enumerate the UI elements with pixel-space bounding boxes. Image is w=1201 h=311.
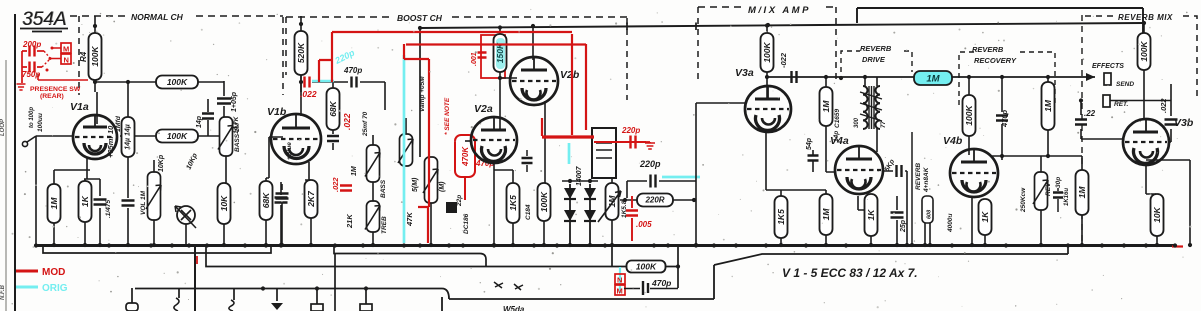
svg-text:100K: 100K bbox=[539, 191, 549, 212]
svg-text:10K: 10K bbox=[1152, 206, 1162, 222]
svg-text:+05mf 10: +05mf 10 bbox=[106, 125, 115, 158]
svg-text:100K: 100K bbox=[762, 41, 772, 62]
svg-text:.001: .001 bbox=[471, 52, 478, 66]
svg-text:470p: 470p bbox=[1000, 109, 1009, 128]
svg-text:REVERB: REVERB bbox=[860, 44, 892, 53]
svg-text:14007: 14007 bbox=[576, 165, 583, 186]
svg-text:300: 300 bbox=[854, 117, 860, 128]
svg-text:V2b: V2b bbox=[560, 69, 580, 81]
svg-text:M/IX AMP: M/IX AMP bbox=[748, 5, 811, 16]
svg-text:(M): (M) bbox=[439, 181, 446, 192]
svg-text:BASS 1M: BASS 1M bbox=[234, 123, 241, 152]
svg-text:470p: 470p bbox=[343, 66, 362, 75]
svg-text:V2a: V2a bbox=[474, 103, 493, 115]
svg-text:100K: 100K bbox=[167, 77, 188, 87]
svg-text:220p: 220p bbox=[621, 126, 640, 135]
svg-text:470K: 470K bbox=[461, 146, 470, 167]
svg-text:30p: 30p bbox=[1055, 177, 1062, 188]
svg-text:REVERB: REVERB bbox=[915, 163, 922, 190]
svg-text:N.F.B: N.F.B bbox=[0, 284, 6, 300]
svg-text:100K: 100K bbox=[167, 131, 188, 141]
svg-text:.022: .022 bbox=[1159, 98, 1168, 113]
svg-text:14p: 14p bbox=[833, 131, 840, 142]
svg-text:LOOP: LOOP bbox=[0, 118, 6, 136]
svg-text:EFFECTS: EFFECTS bbox=[1092, 63, 1124, 70]
svg-text:C1659: C1659 bbox=[834, 108, 841, 128]
svg-text:.1/475: .1/475 bbox=[105, 200, 112, 218]
svg-text:10K: 10K bbox=[219, 195, 229, 211]
svg-text:1M: 1M bbox=[351, 166, 358, 176]
svg-text:1K5: 1K5 bbox=[508, 195, 518, 211]
svg-text:V1b: V1b bbox=[267, 106, 287, 118]
svg-text:V3a: V3a bbox=[735, 67, 754, 79]
svg-text:100K: 100K bbox=[1139, 40, 1149, 61]
svg-text:25mf 70: 25mf 70 bbox=[362, 111, 369, 137]
svg-text:220R: 220R bbox=[644, 196, 664, 205]
svg-text:100K: 100K bbox=[964, 104, 974, 125]
svg-text:* SEE NOTE: * SEE NOTE bbox=[444, 97, 451, 135]
svg-text:1K5: 1K5 bbox=[776, 209, 786, 225]
svg-text:.005: .005 bbox=[636, 220, 652, 229]
svg-text:14p: 14p bbox=[196, 115, 203, 128]
svg-text:N: N bbox=[617, 276, 622, 285]
svg-text:RET.: RET. bbox=[1114, 101, 1129, 108]
svg-text:47K: 47K bbox=[405, 212, 414, 227]
svg-text:V4b: V4b bbox=[943, 135, 963, 147]
svg-text:MOD: MOD bbox=[42, 267, 65, 278]
svg-text:SEND: SEND bbox=[1116, 81, 1134, 88]
svg-text:DRIVE: DRIVE bbox=[862, 55, 886, 64]
svg-text:.022: .022 bbox=[342, 113, 352, 130]
svg-text:REVERB: REVERB bbox=[972, 45, 1004, 54]
svg-text:1K: 1K bbox=[866, 209, 876, 221]
svg-text:1K: 1K bbox=[980, 211, 990, 223]
svg-text:to 100p: to 100p bbox=[29, 107, 35, 128]
svg-text:.22: .22 bbox=[1084, 109, 1096, 118]
svg-text:100K: 100K bbox=[636, 262, 657, 272]
svg-text:.022: .022 bbox=[300, 89, 317, 99]
svg-text:(REAR): (REAR) bbox=[40, 93, 64, 100]
svg-text:W5da: W5da bbox=[503, 305, 525, 311]
svg-text:-022: -022 bbox=[779, 52, 788, 68]
svg-text:R4: R4 bbox=[79, 51, 88, 62]
svg-text:10Kp: 10Kp bbox=[158, 154, 165, 172]
svg-text:1M: 1M bbox=[821, 100, 831, 113]
svg-text:1M: 1M bbox=[926, 74, 940, 85]
svg-text:2K7: 2K7 bbox=[306, 190, 316, 208]
svg-text:77: 77 bbox=[881, 121, 887, 128]
svg-text:V 1 - 5 ECC 83 / 12 Ax: V 1 - 5 ECC 83 / 12 Ax 7. bbox=[782, 266, 918, 280]
svg-text:354A: 354A bbox=[23, 9, 67, 30]
svg-text:470p: 470p bbox=[651, 278, 671, 288]
svg-text:100K: 100K bbox=[90, 45, 100, 66]
svg-text:68K: 68K bbox=[328, 100, 338, 116]
svg-text:1+05p: 1+05p bbox=[231, 91, 238, 112]
svg-text:5(M): 5(M) bbox=[412, 177, 419, 192]
svg-text:1M: 1M bbox=[49, 197, 59, 210]
svg-text:250Kcw: 250Kcw bbox=[1020, 187, 1027, 213]
svg-text:21K: 21K bbox=[345, 214, 354, 229]
svg-text:1K: 1K bbox=[80, 195, 90, 207]
svg-text:ORIG: ORIG bbox=[42, 283, 68, 294]
svg-text:V1a: V1a bbox=[70, 101, 89, 113]
svg-text:RECOVERY: RECOVERY bbox=[974, 56, 1017, 65]
svg-text:REVERB MIX: REVERB MIX bbox=[1118, 13, 1173, 22]
svg-text:68K: 68K bbox=[261, 192, 271, 208]
svg-text:220p: 220p bbox=[639, 159, 661, 169]
svg-text:520K: 520K bbox=[296, 42, 306, 63]
svg-text:1K16u: 1K16u bbox=[1064, 188, 1070, 206]
svg-text:54p: 54p bbox=[806, 137, 813, 150]
svg-text:1M: 1M bbox=[607, 195, 617, 208]
svg-text:PRESENCE SW: PRESENCE SW bbox=[30, 86, 81, 93]
svg-text:1M: 1M bbox=[1043, 99, 1053, 112]
svg-text:M: M bbox=[617, 287, 623, 296]
svg-text:22p: 22p bbox=[456, 195, 463, 207]
svg-text:REV: REV bbox=[1045, 182, 1052, 196]
svg-text:14µ 14µ: 14µ 14µ bbox=[125, 124, 132, 150]
svg-text:608: 608 bbox=[927, 209, 933, 219]
svg-text:DC186: DC186 bbox=[463, 213, 470, 234]
svg-text:C184: C184 bbox=[525, 204, 532, 220]
svg-text:NORMAL CH: NORMAL CH bbox=[131, 12, 184, 22]
svg-text:BOOST CH: BOOST CH bbox=[397, 13, 443, 23]
svg-text:VOL 1M: VOL 1M bbox=[140, 190, 147, 215]
svg-text:M: M bbox=[63, 45, 69, 54]
svg-text:.022: .022 bbox=[331, 177, 340, 192]
svg-text:100uu: 100uu bbox=[37, 113, 44, 132]
svg-text:TREB: TREB bbox=[381, 216, 388, 234]
svg-text:25p: 25p bbox=[900, 219, 907, 233]
svg-text:N: N bbox=[64, 56, 69, 65]
svg-text:200p: 200p bbox=[22, 40, 41, 49]
